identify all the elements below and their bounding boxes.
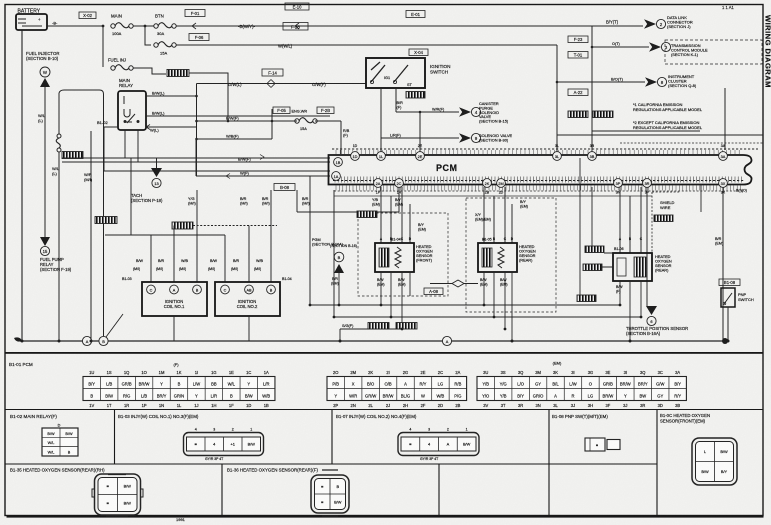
fuse MAIN 100A	[111, 14, 133, 37]
pcm connector grid mid	[327, 370, 467, 408]
sensor1 bottom wires	[377, 272, 410, 329]
wire junction to fuel-inj fuse	[102, 25, 105, 67]
connector sub text	[205, 457, 438, 461]
connector label E-10 top	[285, 3, 309, 10]
coil pin row labels	[122, 277, 292, 281]
sensor front top labels	[372, 198, 426, 232]
B1-36 connector tabs	[322, 470, 338, 516]
node B circled with up arrow	[330, 244, 357, 305]
bus wires into PCM left	[62, 127, 330, 179]
TCM note dashed box	[665, 40, 762, 64]
separator line	[5, 352, 763, 354]
wire y235 bus	[105, 158, 225, 235]
wires right band y182-196	[557, 131, 763, 143]
tach note	[131, 193, 163, 203]
hatched label A-30	[172, 222, 193, 229]
fuse row2 junction	[145, 26, 151, 45]
heated oxygen sensor rear right	[613, 253, 672, 281]
PCM pin 1D top	[351, 152, 360, 161]
hatched label E-01	[357, 211, 377, 218]
wire y139 W/B	[196, 120, 273, 139]
PCM top stubs row	[336, 150, 739, 154]
pnp switch	[721, 288, 735, 307]
fuse BTN 30A	[154, 14, 176, 37]
wire to instrument cluster	[556, 45, 645, 152]
wire node	[133, 25, 154, 28]
wire to solenoid valve 2	[381, 88, 459, 154]
main relay MAIN RELAY	[118, 78, 146, 130]
wire row2 W(L) to right	[176, 44, 557, 49]
section verticals	[115, 410, 658, 517]
ignition coil no1	[142, 282, 207, 316]
sensor2 bottom wires	[480, 272, 512, 341]
wire to canister purge	[396, 108, 459, 155]
mid right drop wires	[580, 158, 613, 295]
section divider y464	[5, 463, 657, 465]
hatched label B-01	[62, 152, 83, 159]
PNP section connectors	[585, 438, 620, 451]
battery	[16, 9, 47, 31]
PCM pin 2A bottom	[374, 179, 383, 188]
B1-35 section connector	[95, 474, 141, 515]
arrow down fuel pump relay	[40, 237, 50, 256]
arrow canister purge solenoid	[459, 107, 481, 117]
wire tach vertical	[156, 158, 158, 168]
connector label X-04	[409, 49, 428, 56]
hatched labels on bus	[368, 323, 389, 330]
connector label F-06	[189, 34, 209, 41]
dashed box sensor front	[358, 213, 448, 296]
sensor pin labels row	[380, 237, 643, 241]
coil ground stubs	[174, 316, 249, 341]
heated oxygen sensor rear	[478, 243, 536, 272]
bus y317	[334, 190, 641, 317]
PCM pin 1A left edge	[332, 172, 341, 181]
sensor3 bottom wires	[616, 281, 641, 341]
wire loop from relay to x91	[59, 90, 104, 336]
connector label F-28	[283, 23, 308, 31]
connector label F-01	[185, 10, 205, 17]
wire x725 top down	[715, 88, 725, 341]
connector label F-14	[262, 69, 283, 76]
heated oxygen sensor front	[375, 243, 433, 272]
PCM pin 3R bottom	[643, 179, 652, 188]
wire battery down left bus	[21, 30, 23, 341]
wire ignition switch down B/R	[396, 88, 403, 112]
relay output wires	[146, 84, 198, 177]
PCM dashed bus above	[332, 148, 758, 150]
PCM pin stubs row	[335, 177, 741, 183]
PCM pin 3B top	[588, 152, 597, 161]
PCM pin 2E top	[416, 152, 425, 161]
arrow transmission control module	[649, 42, 671, 52]
hatched labels mid right	[585, 246, 604, 253]
wires PCM pins down	[381, 187, 647, 306]
below PCM thin bus	[334, 195, 652, 197]
PCM pin 3X bottom	[719, 179, 728, 188]
PCM pin 1L top	[377, 152, 386, 161]
title vertical WIRING DIAGRAM	[764, 15, 771, 88]
bus y305	[310, 176, 620, 305]
PCM pin 2K bottom	[483, 179, 492, 188]
sensor rear top labels	[475, 200, 528, 222]
hatched label B-02	[95, 217, 117, 224]
section divider top	[5, 409, 763, 411]
instrument cluster note	[668, 74, 697, 88]
arrow down TPS	[646, 306, 657, 326]
below PCM dashed bus	[334, 190, 744, 192]
footnote california	[633, 102, 703, 112]
wire to TCM	[591, 26, 649, 48]
PCM pin 3P bottom	[614, 179, 623, 188]
ground bus y341	[14, 314, 728, 346]
wire W/L fuse branch	[58, 93, 60, 134]
PCM pin 2M bottom	[497, 179, 506, 188]
ignition switch label	[430, 64, 450, 74]
boxed label B1-08	[719, 279, 740, 286]
wire BTN to right, B(W/Y)	[176, 20, 643, 30]
connector label B-08	[274, 184, 295, 191]
dashed wire A-30	[193, 225, 277, 227]
wire 2C jog to coils	[297, 190, 399, 212]
boxed label A-08	[424, 288, 443, 295]
fuse ENG.WR 15A	[273, 107, 334, 131]
coil wire labels row	[136, 259, 264, 263]
fuel pump relay note	[40, 257, 72, 272]
arrow down tach	[151, 168, 162, 188]
PCM box	[329, 155, 752, 185]
wire G/W to ignition switch	[197, 80, 367, 88]
arrow solenoid valve	[459, 133, 481, 143]
shield wire note	[660, 200, 675, 210]
PCM bottom pin number labels	[376, 191, 726, 195]
coil drop wires	[151, 190, 271, 282]
solenoid valve note	[479, 133, 513, 142]
canister purge note	[479, 101, 509, 124]
hatched label below fuel inj	[167, 70, 189, 77]
data link note	[667, 15, 693, 29]
PCM pin 3L top	[553, 152, 562, 161]
hatched label under ignition switch	[406, 92, 425, 99]
PCM pin 3A top	[719, 152, 728, 161]
PGM note	[312, 238, 344, 247]
throttle position sensor note	[626, 326, 688, 336]
junction diamond	[430, 280, 478, 287]
arrow data link connector	[644, 19, 666, 29]
ignition coil no2	[215, 282, 280, 316]
arrow up fuel injector	[40, 78, 50, 87]
shield dashed vertical	[652, 192, 680, 253]
B1-36 section connector	[311, 475, 349, 513]
PCM pin 2C bottom	[395, 179, 404, 188]
PCM top pin number labels	[353, 144, 726, 148]
dashed box sensor rear CA	[466, 198, 556, 312]
fuse vertical 20A	[56, 134, 61, 152]
B1-03 section connector	[184, 428, 264, 456]
wire x91 vertical	[84, 131, 93, 341]
connector label C-02	[79, 12, 96, 19]
fuse FUEL INJ	[108, 58, 133, 71]
wire R/B down to PCM	[341, 121, 350, 154]
wire eng.wr row y121	[196, 109, 341, 121]
B1-35 connector tabs	[92, 475, 143, 517]
PCM below-bottom stubs row	[336, 186, 741, 191]
B1-07 section connector	[398, 428, 479, 456]
PCM pin 1B left edge	[334, 158, 343, 167]
main relay section connector	[42, 424, 78, 457]
node W circled	[40, 67, 50, 77]
wire battery to main fuse	[47, 25, 102, 27]
bus y329	[340, 324, 402, 341]
fuse 15A row2	[154, 42, 176, 56]
hatched labels right col	[568, 111, 588, 118]
wire continues down	[52, 152, 60, 341]
sensor connector id labels	[391, 238, 624, 252]
pnp wire down	[727, 307, 729, 341]
wire labels above coils col1	[188, 197, 197, 206]
relay bottom stubs	[125, 130, 138, 162]
wire fuel inj fuse right	[133, 68, 229, 122]
ignition switch	[366, 58, 425, 88]
wire stub right of PCM	[701, 184, 747, 212]
PCM dashed line inside	[333, 180, 744, 182]
fuel injector note	[26, 51, 59, 61]
pnp switch label	[738, 292, 754, 302]
arrow instrument cluster	[645, 77, 667, 87]
wire W/L down	[38, 87, 46, 237]
bus junction dots	[21, 304, 730, 343]
hatched label near shield	[654, 215, 673, 222]
boxed labels right column	[568, 36, 588, 43]
B1-0C section connector	[692, 438, 737, 485]
connector label E-01 top	[406, 11, 425, 18]
hatched label F-30	[166, 69, 168, 71]
